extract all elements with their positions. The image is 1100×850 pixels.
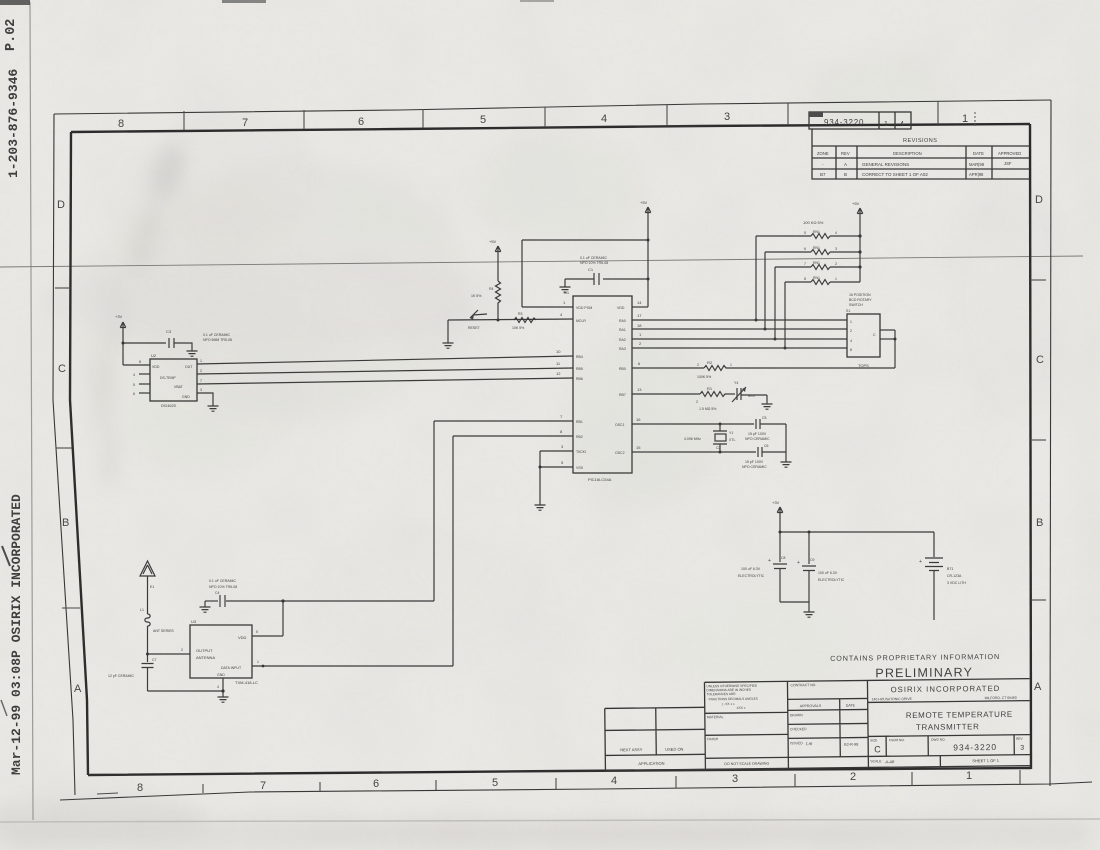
wire S1 common drop <box>894 330 896 368</box>
frame left inner border <box>70 132 88 775</box>
transducer Y4 <box>727 381 767 402</box>
antenna E1 <box>140 561 155 614</box>
node vdd tap C1 <box>647 278 650 281</box>
wire U1 RB2 <box>453 429 573 436</box>
wire vdd top run <box>522 239 648 241</box>
resistor R3 10K <box>512 312 536 330</box>
node VSS junction <box>539 466 542 469</box>
wire RN1B drop <box>764 252 767 331</box>
wire battery rail run <box>779 531 935 534</box>
U2 pin 8 wire <box>123 360 150 365</box>
side zone ticks <box>55 280 1046 608</box>
U2 gnd wire <box>197 388 213 406</box>
resistor R2 <box>697 360 732 379</box>
C4 value note <box>209 579 237 589</box>
ground C1 <box>560 279 571 292</box>
wire T0CKI to VSS <box>539 451 541 467</box>
wire RB1 drop to TX vdd <box>433 421 435 601</box>
ground U3 <box>218 691 229 702</box>
wire RB2 drop to TX data <box>452 436 454 666</box>
frame right inner border <box>1030 124 1031 769</box>
wire U1 RA0 to S1 <box>632 313 847 320</box>
switch S1 rotary <box>846 293 880 368</box>
wire U1 T0CKI <box>540 444 573 451</box>
capacitor C8 electrolytic <box>768 532 787 602</box>
top edge dark marks <box>0 0 30 5</box>
power +5V above U1 <box>640 200 651 307</box>
frame right outer line <box>1050 100 1051 786</box>
wire RN1A drop <box>755 236 758 322</box>
wire U1 RB1 <box>434 414 573 421</box>
left zone letters <box>57 199 82 695</box>
resistor RN1A <box>756 230 862 239</box>
IC U2 clock generator <box>150 353 197 408</box>
resistor RN1C <box>775 261 862 270</box>
wire U1 VSS <box>540 460 573 467</box>
wire U1 RA2 to S1 <box>632 332 847 339</box>
C9 value note <box>818 571 845 582</box>
ground Y4 <box>762 395 773 409</box>
battery BT1 <box>919 532 966 620</box>
C3 value note <box>203 333 232 342</box>
node antenna tap <box>146 653 149 656</box>
wire U2 to U1 RB5 <box>197 361 573 374</box>
top zone ticks <box>184 101 938 130</box>
title block application table <box>605 707 706 770</box>
bottom zone numbers <box>137 770 972 794</box>
IC U1 microcontroller <box>564 290 632 482</box>
capacitor C9 electrolytic <box>797 532 816 602</box>
paper left edge line <box>30 2 33 820</box>
revisions table frame <box>812 129 1030 179</box>
wire to C3 <box>123 342 166 344</box>
wire MCLR left drop <box>447 320 449 343</box>
wire caps gnd run <box>780 602 809 612</box>
node U2 vdd tap <box>122 342 125 345</box>
ground C3 <box>187 351 198 356</box>
bottom zone ticks <box>97 770 1020 794</box>
wire U1 RB0 run <box>632 361 895 368</box>
wire U1 pin14 stub <box>632 300 648 307</box>
wire U1 RA1 to S1 <box>632 323 847 329</box>
wire U2 to U1 RB6 <box>197 371 573 384</box>
tolerance cell text <box>704 683 788 766</box>
wire antenna to U3 <box>148 648 191 654</box>
wire antenna gnd run <box>148 689 225 692</box>
power +5V MCLR pullup <box>489 239 501 281</box>
capacitor C3 <box>166 329 174 348</box>
wire RN1D drop <box>784 282 787 350</box>
IC U3 transmitter module <box>190 619 258 685</box>
capacitor C5 <box>745 416 786 441</box>
power +3V to U2 <box>115 314 126 365</box>
node U3 vdd junction <box>281 599 284 602</box>
wire U1 OSC1 <box>632 417 754 426</box>
ground osc <box>781 462 792 467</box>
frame bottom outer line <box>60 782 1092 800</box>
wire vdd drop to U3 <box>282 601 284 636</box>
fax scan artifact line <box>0 256 1083 267</box>
test point TP1 on MCLR <box>468 310 487 330</box>
crystal Y1 <box>684 424 735 452</box>
frame outer top line <box>54 100 1051 114</box>
power +5V resistor network <box>852 201 863 282</box>
approvals cell <box>787 682 868 757</box>
wire U2 out to U1 RB4 <box>197 349 573 364</box>
wire U3 vdd stub <box>252 630 283 636</box>
wire S1 common upper stub <box>880 329 895 331</box>
wire VSS drop <box>539 467 541 505</box>
U2 left stub pin 6 <box>133 392 150 396</box>
C1 value note <box>580 256 608 265</box>
wire U1 RA3 to S1 <box>632 341 847 348</box>
ground MCLR <box>443 343 454 348</box>
paper bottom edge line <box>0 819 1100 822</box>
frame inner top border <box>71 124 1030 132</box>
title block main frame <box>704 679 1030 770</box>
wire osc gnd bus <box>785 424 787 462</box>
capacitor C7 <box>142 654 157 691</box>
wire RN1C drop <box>774 267 777 341</box>
node vdd tap 1 <box>647 239 650 242</box>
top zone numbers <box>118 111 968 130</box>
node MCLR junction <box>497 319 500 322</box>
capacitor C6 <box>742 444 786 469</box>
wire vdd left drop <box>521 240 523 307</box>
right zone letters <box>1034 194 1044 693</box>
company cell <box>867 684 1030 768</box>
top dwg number box <box>809 112 911 129</box>
wire U3 data stub <box>252 660 453 667</box>
U2 left stub pin 4 <box>133 373 150 377</box>
capacitor C4 <box>205 591 434 607</box>
ground C4 <box>200 601 211 612</box>
wire U3 gnd stub <box>217 678 223 691</box>
ground U2 <box>208 406 219 411</box>
C8 value note <box>738 567 765 578</box>
resistor R1 <box>696 386 727 411</box>
power +3V battery rail <box>772 500 783 532</box>
ground VSS <box>535 505 546 510</box>
resistor RN1D <box>785 276 860 285</box>
ground battery caps <box>804 612 815 617</box>
frame left outer line <box>53 114 75 795</box>
wire U1 OSC2 <box>632 445 756 454</box>
left edge scribble <box>2 546 10 566</box>
wire to U1 pin1 <box>522 300 573 307</box>
inductor L1 <box>140 608 174 654</box>
wire S1 common lower stub <box>880 338 897 341</box>
resistor R4 1K <box>471 281 501 320</box>
wire MCLR run <box>448 312 573 320</box>
U2 left stub pin 5 <box>133 383 150 387</box>
wire C3 to ground <box>174 343 192 351</box>
wire U1 RB7 run <box>632 387 700 394</box>
capacitor C1 <box>565 267 648 285</box>
resistor RN1B <box>765 246 862 255</box>
zone tick dotted right of box <box>974 112 976 126</box>
frame bottom inner border <box>88 768 1031 775</box>
